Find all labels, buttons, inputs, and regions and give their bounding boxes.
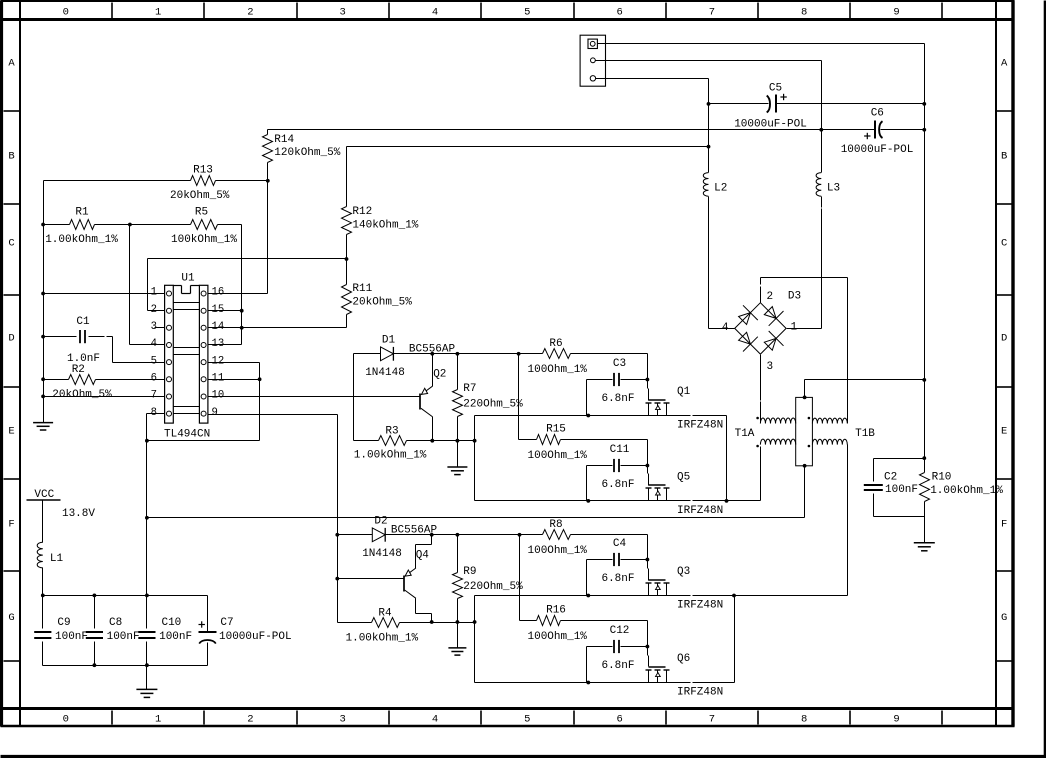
wire Q6 source rail — [475, 596, 735, 685]
svg-text:5: 5 — [151, 355, 157, 367]
transformer T1 core — [735, 397, 876, 465]
svg-text:F: F — [8, 519, 14, 531]
inductor L2 — [703, 104, 727, 329]
svg-text:2: 2 — [151, 304, 157, 316]
capacitor C4 — [587, 538, 650, 595]
resistor R2 — [44, 364, 165, 401]
wire pin2 net row — [148, 257, 349, 310]
wire R1-R5 junction to pin4 — [130, 225, 165, 345]
svg-text:R11: R11 — [352, 283, 372, 295]
svg-text:C1: C1 — [76, 316, 90, 328]
svg-text:IRFZ48N: IRFZ48N — [677, 600, 723, 612]
svg-text:4: 4 — [432, 714, 438, 726]
svg-text:6.8nF: 6.8nF — [601, 393, 634, 405]
svg-text:C2: C2 — [884, 472, 897, 484]
wire cell left vertical upper — [474, 416, 476, 501]
wire T1B bottom to Q3 rail — [847, 445, 849, 596]
svg-text:IRFZ48N: IRFZ48N — [677, 687, 723, 699]
svg-text:R14: R14 — [274, 134, 294, 146]
svg-text:2: 2 — [767, 291, 774, 303]
resistor R10 — [920, 459, 1004, 517]
svg-text:100nF: 100nF — [885, 484, 918, 496]
wire L2 to D3 pin 4 — [709, 328, 735, 330]
svg-text:1.00kOhm_1%: 1.00kOhm_1% — [930, 485, 1003, 497]
svg-text:Q1: Q1 — [677, 386, 691, 398]
svg-text:VCC: VCC — [34, 489, 54, 501]
transistor Q6 IRFZ48N — [646, 621, 724, 699]
svg-text:9: 9 — [893, 7, 899, 19]
resistor R5 — [130, 207, 242, 246]
resistor R7 — [453, 354, 524, 441]
svg-text:100nF: 100nF — [159, 631, 192, 643]
svg-text:14: 14 — [212, 321, 225, 333]
wire C2 R10 bottom row — [874, 516, 925, 518]
capacitor C5 — [734, 82, 807, 130]
capacitor C6 — [841, 107, 914, 155]
transistor Q2 BC556AP — [409, 344, 456, 441]
svg-text:3: 3 — [151, 321, 157, 333]
svg-text:4: 4 — [151, 338, 157, 350]
svg-text:R13: R13 — [193, 165, 213, 177]
transistor Q1 IRFZ48N — [646, 354, 724, 432]
svg-text:C9: C9 — [57, 617, 70, 629]
svg-text:F: F — [1001, 519, 1007, 531]
svg-text:C12: C12 — [610, 625, 630, 637]
wire C2 R10 top row — [874, 456, 927, 460]
svg-text:220Ohm_5%: 220Ohm_5% — [463, 398, 523, 410]
svg-text:7: 7 — [709, 7, 715, 19]
svg-text:C: C — [1001, 238, 1007, 250]
svg-text:L2: L2 — [714, 183, 727, 195]
wire D3 pin 2 to T1B top — [761, 278, 848, 424]
svg-text:G: G — [1001, 612, 1007, 624]
svg-text:1.00kOhm_1%: 1.00kOhm_1% — [354, 450, 427, 462]
svg-text:D: D — [8, 333, 14, 345]
wire pin9 to Q4 base — [338, 578, 405, 580]
svg-text:C: C — [8, 238, 14, 250]
resistor R6 — [528, 338, 648, 376]
svg-text:8: 8 — [801, 7, 807, 19]
wire bypass caps top rail — [41, 594, 208, 598]
wire R15 feed — [519, 439, 537, 441]
svg-text:Q2: Q2 — [433, 368, 446, 380]
svg-text:8: 8 — [151, 407, 157, 419]
wire R16 feed — [520, 620, 537, 622]
svg-text:5: 5 — [524, 7, 530, 19]
wire connector pin3 to L2 — [596, 79, 709, 104]
resistor R1 — [44, 207, 132, 246]
inductor L3 — [816, 130, 840, 329]
U1 pin numbers — [151, 287, 225, 419]
ground under R9 — [448, 623, 466, 656]
wire bypass caps bottom rail — [43, 663, 208, 667]
svg-text:Q4: Q4 — [416, 549, 430, 561]
bridge rectifier D3 — [722, 291, 801, 374]
wire T1 center tap bottom — [803, 464, 807, 518]
svg-text:6: 6 — [616, 7, 622, 19]
svg-text:C6: C6 — [871, 107, 884, 119]
svg-text:T1B: T1B — [855, 428, 875, 440]
svg-text:R4: R4 — [378, 607, 392, 619]
ground left rail — [33, 423, 53, 430]
wire R5 right to pins 15,14,13 — [208, 225, 244, 345]
svg-text:1.00kOhm_1%: 1.00kOhm_1% — [45, 234, 118, 246]
svg-text:120kOhm_5%: 120kOhm_5% — [274, 147, 340, 159]
wire pin8 riser — [147, 414, 165, 596]
svg-text:1: 1 — [155, 714, 161, 726]
svg-text:1.00kOhm_1%: 1.00kOhm_1% — [346, 633, 419, 645]
svg-text:E: E — [1001, 426, 1007, 438]
connector J1 — [580, 35, 605, 86]
svg-text:8: 8 — [801, 714, 807, 726]
frame row letters A-G — [8, 58, 1008, 625]
diode D1 — [365, 334, 405, 379]
wire Q3 source rail — [475, 594, 848, 598]
wire pin9 to Q4 area — [208, 415, 340, 623]
ground bypass caps — [136, 666, 157, 698]
svg-text:R16: R16 — [546, 605, 566, 617]
ground under R7 — [447, 441, 467, 475]
svg-text:3: 3 — [767, 361, 774, 373]
svg-text:0: 0 — [63, 7, 69, 19]
capacitor C9 — [34, 596, 88, 666]
diode D2 — [362, 516, 402, 561]
svg-text:11: 11 — [212, 373, 225, 385]
svg-text:R8: R8 — [549, 519, 562, 531]
svg-text:100nF: 100nF — [107, 631, 140, 643]
svg-text:B: B — [8, 151, 14, 163]
svg-text:7: 7 — [709, 714, 715, 726]
svg-text:10000uF-POL: 10000uF-POL — [841, 144, 914, 156]
svg-text:BC556AP: BC556AP — [391, 525, 438, 537]
svg-text:100Ohm_1%: 100Ohm_1% — [528, 545, 588, 557]
svg-text:9: 9 — [893, 714, 899, 726]
wire drive net row 1 — [354, 352, 543, 441]
capacitor C7 polarized — [199, 596, 292, 666]
wire Q1 source rail — [475, 414, 727, 501]
svg-text:20kOhm_5%: 20kOhm_5% — [170, 190, 230, 202]
wire C5 row — [707, 102, 927, 106]
svg-text:R6: R6 — [549, 338, 562, 350]
ground under R10 — [914, 517, 935, 551]
svg-text:R5: R5 — [195, 207, 208, 219]
U1 pin circles — [167, 291, 207, 416]
svg-text:R12: R12 — [352, 206, 372, 218]
svg-text:IRFZ48N: IRFZ48N — [677, 505, 723, 517]
svg-text:R2: R2 — [72, 364, 85, 376]
svg-text:100Ohm_1%: 100Ohm_1% — [528, 364, 588, 376]
wire pin16 riser — [208, 181, 268, 294]
resistor R9 — [453, 535, 524, 623]
power symbol VCC — [27, 489, 96, 520]
svg-text:20kOhm_5%: 20kOhm_5% — [352, 296, 412, 308]
resistor R8 — [528, 519, 648, 557]
svg-text:B: B — [1001, 151, 1007, 163]
svg-text:1: 1 — [155, 7, 161, 19]
svg-text:G: G — [8, 612, 14, 624]
transistor Q5 IRFZ48N — [646, 440, 724, 518]
svg-text:100Ohm_1%: 100Ohm_1% — [528, 631, 588, 643]
U1 pin stubs — [155, 327, 165, 329]
wire C1 to pin5 — [113, 337, 165, 363]
svg-text:R3: R3 — [385, 426, 398, 438]
ic U1 TL494CN — [164, 272, 210, 440]
svg-text:5: 5 — [524, 714, 530, 726]
svg-text:D1: D1 — [382, 334, 396, 346]
capacitor C1 — [44, 316, 113, 365]
svg-text:C5: C5 — [769, 82, 782, 94]
svg-text:Q5: Q5 — [677, 472, 690, 484]
resistor R14 — [263, 130, 341, 181]
svg-text:R1: R1 — [75, 207, 89, 219]
wire mid return row — [145, 516, 805, 520]
svg-text:9: 9 — [212, 407, 218, 419]
svg-text:100nF: 100nF — [55, 631, 88, 643]
svg-text:10000uF-POL: 10000uF-POL — [734, 119, 807, 131]
svg-text:E: E — [8, 426, 14, 438]
svg-text:A: A — [1001, 58, 1008, 70]
svg-text:0: 0 — [63, 714, 69, 726]
wire C6 row (R14 top rail) — [268, 128, 927, 132]
svg-text:D3: D3 — [788, 291, 801, 303]
inductor L1 — [37, 501, 63, 596]
capacitor C2 — [864, 459, 918, 517]
svg-text:12: 12 — [212, 355, 225, 367]
svg-text:L3: L3 — [827, 183, 840, 195]
svg-text:D2: D2 — [374, 516, 387, 528]
svg-text:6.8nF: 6.8nF — [601, 479, 634, 491]
resistor R15 — [528, 424, 648, 462]
transformer T1B windings — [808, 417, 848, 448]
svg-text:1N4148: 1N4148 — [365, 367, 405, 379]
wire T1A bottom to Q1/Q5 rail — [727, 447, 761, 501]
wire connector pin2 to L3 — [596, 61, 822, 130]
wire right vertical rail x=924 — [924, 44, 926, 459]
frame column numbers 0-9 — [63, 7, 900, 726]
capacitor C10 — [138, 596, 192, 666]
transistor Q4 BC556AP — [391, 525, 438, 623]
svg-text:1N4148: 1N4148 — [362, 548, 402, 560]
resistor R12 — [342, 147, 419, 259]
svg-text:R7: R7 — [463, 383, 476, 395]
resistor R11 — [342, 259, 413, 328]
svg-text:2: 2 — [247, 714, 253, 726]
svg-text:20kOhm_5%: 20kOhm_5% — [52, 389, 112, 401]
frame column ticks — [112, 3, 942, 725]
wire left rail — [41, 181, 45, 423]
svg-text:1: 1 — [151, 287, 157, 299]
capacitor C11 — [587, 444, 650, 500]
svg-text:3: 3 — [340, 7, 346, 19]
svg-text:C3: C3 — [613, 358, 626, 370]
wire Q5 source rail — [475, 499, 761, 503]
svg-text:15: 15 — [212, 304, 225, 316]
svg-text:10000uF-POL: 10000uF-POL — [219, 631, 292, 643]
svg-text:6: 6 — [616, 714, 622, 726]
wire T1 center tap top to right rail — [803, 378, 927, 399]
svg-text:C7: C7 — [220, 617, 233, 629]
resistor R4 — [338, 607, 477, 644]
capacitor C12 — [587, 625, 650, 682]
wire connector pin1 to right rail — [598, 43, 925, 45]
svg-text:IRFZ48N: IRFZ48N — [677, 420, 723, 432]
svg-text:16: 16 — [212, 287, 225, 299]
svg-text:13: 13 — [212, 338, 225, 350]
svg-text:6.8nF: 6.8nF — [601, 660, 634, 672]
svg-text:TL494CN: TL494CN — [164, 429, 210, 441]
svg-text:Q6: Q6 — [677, 653, 690, 665]
svg-text:220Ohm_5%: 220Ohm_5% — [463, 581, 523, 593]
svg-text:C10: C10 — [161, 617, 181, 629]
svg-text:A: A — [8, 58, 15, 70]
wire pin1 row — [44, 293, 165, 295]
svg-text:1: 1 — [791, 322, 798, 334]
wire D3 pin 3 to T1A top — [760, 355, 762, 424]
wire cell left vertical lower — [474, 596, 476, 683]
svg-text:4: 4 — [432, 7, 438, 19]
wire gate branch lower — [519, 535, 521, 621]
wire pin10 to Q2 base — [208, 396, 421, 398]
svg-text:100Ohm_1%: 100Ohm_1% — [528, 450, 588, 462]
wire pin7 row — [44, 396, 165, 398]
wire R12 top row — [347, 145, 711, 149]
resistor R16 — [528, 605, 648, 643]
svg-text:R9: R9 — [463, 566, 476, 578]
capacitor C3 — [587, 358, 650, 415]
resistor R3 — [354, 426, 477, 462]
svg-text:L1: L1 — [50, 553, 64, 565]
svg-text:140kOhm_1%: 140kOhm_1% — [352, 219, 418, 231]
wire gate branch upper — [518, 354, 520, 440]
svg-text:7: 7 — [151, 390, 157, 402]
wire drive net row 2 — [338, 533, 543, 537]
svg-text:C8: C8 — [109, 617, 122, 629]
svg-text:R10: R10 — [932, 472, 952, 484]
svg-text:C11: C11 — [610, 444, 630, 456]
wire D3 pin 1 to L3 — [787, 328, 822, 330]
svg-text:BC556AP: BC556AP — [409, 344, 456, 356]
svg-text:T1A: T1A — [735, 428, 755, 440]
transformer T1A windings — [756, 417, 795, 448]
svg-text:10: 10 — [212, 390, 225, 402]
svg-text:100kOhm_1%: 100kOhm_1% — [171, 234, 237, 246]
svg-text:D: D — [1001, 333, 1007, 345]
svg-text:6: 6 — [151, 373, 157, 385]
svg-text:6.8nF: 6.8nF — [601, 573, 634, 585]
resistor R13 — [44, 165, 270, 203]
svg-text:13.8V: 13.8V — [62, 508, 95, 520]
transistor Q3 IRFZ48N — [646, 535, 724, 612]
wire pin12 pin11 riser to return net A — [145, 363, 262, 443]
frame row ticks — [4, 111, 1012, 661]
svg-text:C4: C4 — [613, 538, 627, 550]
svg-text:Q3: Q3 — [677, 566, 690, 578]
wire pin14 row to R11 — [208, 327, 347, 329]
capacitor C8 — [86, 596, 140, 666]
svg-text:U1: U1 — [181, 272, 195, 284]
svg-text:2: 2 — [247, 7, 253, 19]
svg-text:3: 3 — [340, 714, 346, 726]
svg-text:R15: R15 — [546, 424, 566, 436]
